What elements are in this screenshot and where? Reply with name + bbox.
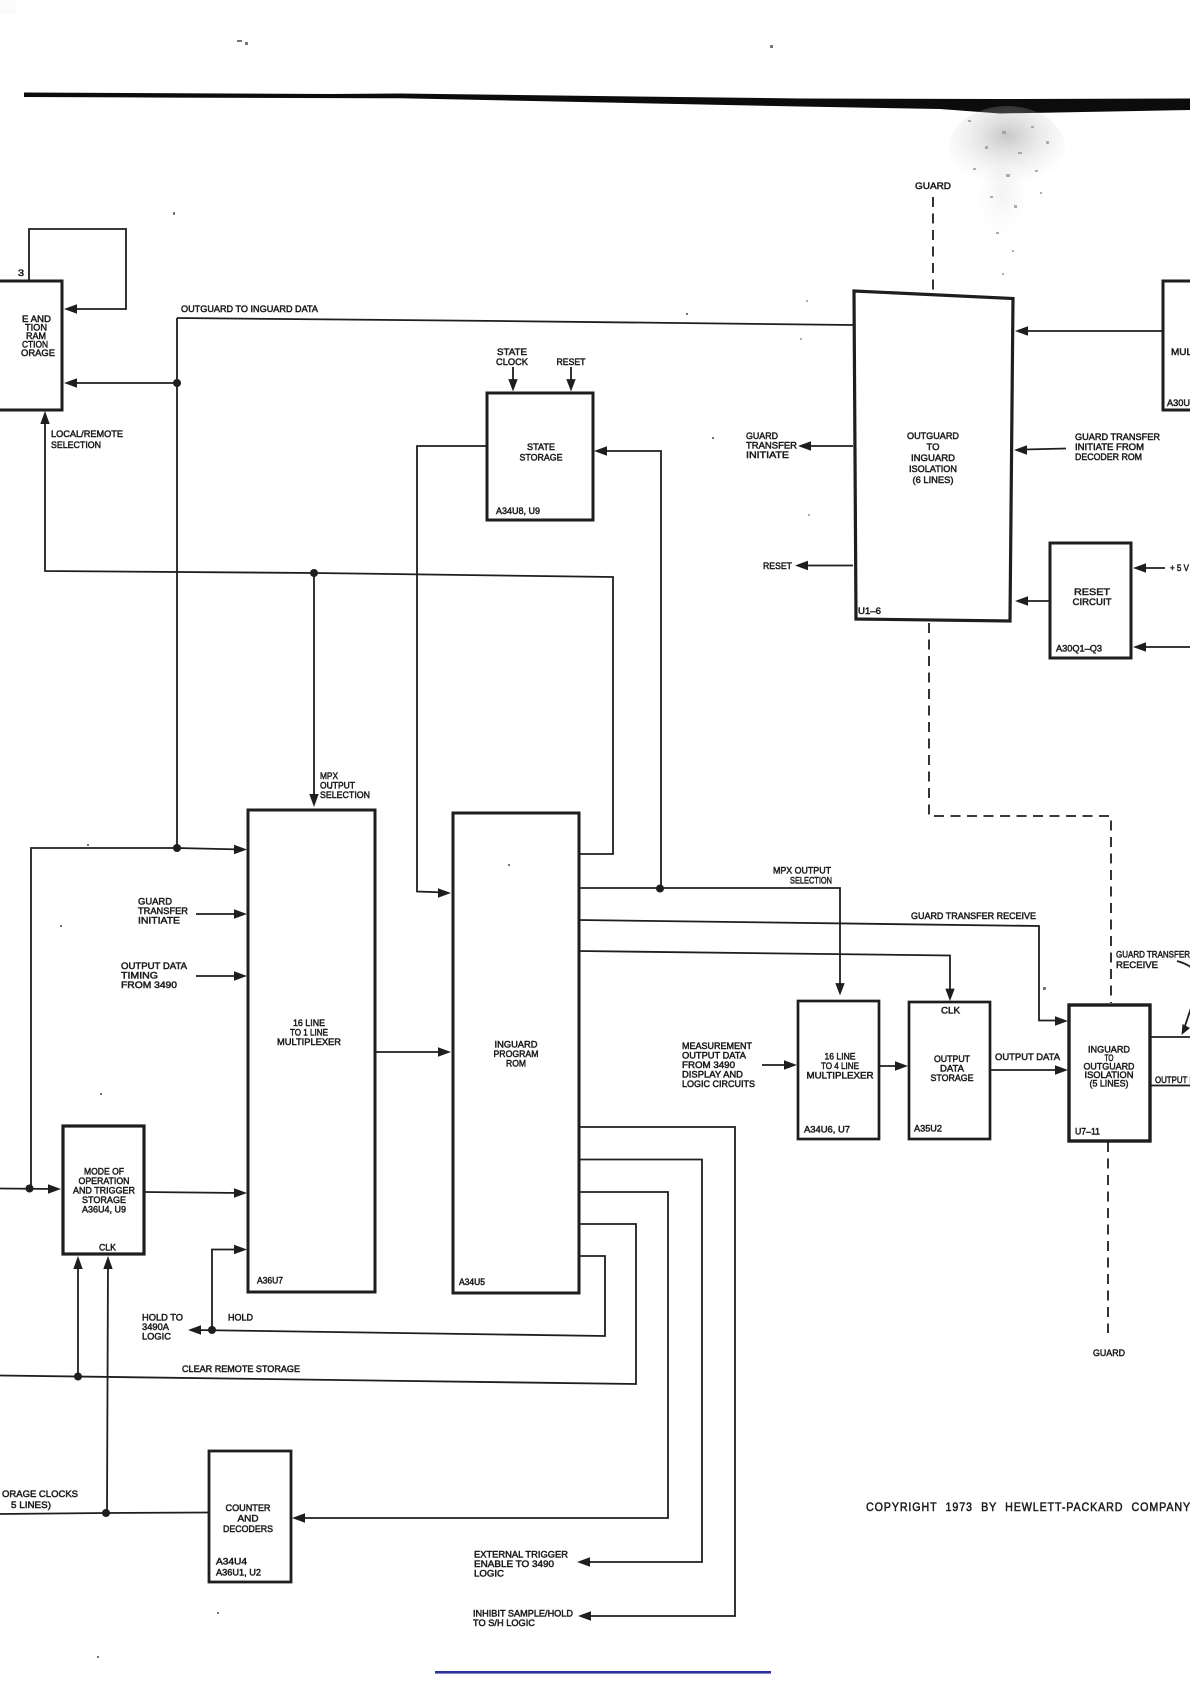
node: LOCAL/REMOTE SELECTION label xyxy=(51,428,123,450)
svg-text:LOGIC: LOGIC xyxy=(142,1331,171,1342)
wire: mode of operation storage output into 16:1 multiplexer xyxy=(144,1188,247,1197)
block: state storage A34U8, U9 xyxy=(487,393,593,520)
svg-text:(6 LINES): (6 LINES) xyxy=(913,474,954,485)
svg-text:ROM: ROM xyxy=(506,1058,526,1069)
svg-text:LOGIC: LOGIC xyxy=(474,1568,504,1579)
node: EXTERNAL TRIGGER ENABLE TO 3490 LOGIC label xyxy=(474,1549,568,1579)
junction: mode storage input from page-left net xyxy=(26,1185,34,1193)
svg-text:STORAGE: STORAGE xyxy=(520,452,563,463)
block: multiplexer (partial at page right edge) A30U xyxy=(1163,281,1190,410)
node: MPX OUTPUT SELECTION label (left) xyxy=(320,770,370,800)
block: reset circuit A30Q1-Q3 xyxy=(1050,543,1131,658)
wire: reset arrow into state storage top xyxy=(566,367,575,392)
svg-text:MULTIPLEXER: MULTIPLEXER xyxy=(277,1036,341,1047)
wire: isolation output upper line to page right edge xyxy=(1150,1036,1190,1038)
node: GUARD TRANSFER RECEIVE label (right edge) xyxy=(1116,949,1190,971)
junction: output selection net to state storage branch xyxy=(656,885,664,893)
wire: ROM loop 2 to external trigger enable xyxy=(577,1160,702,1567)
wire: annotation arrow from receive label to isolation output line xyxy=(1177,961,1190,1035)
svg-text:3: 3 xyxy=(18,267,24,278)
wire: output data from storage into inguard-outguard isolation xyxy=(990,1065,1068,1074)
svg-text:A36U7: A36U7 xyxy=(257,1275,283,1286)
junction: data line to mode-of-operation branch xyxy=(173,844,181,852)
svg-text:A34U8, U9: A34U8, U9 xyxy=(496,505,540,516)
svg-text:AND: AND xyxy=(238,1513,259,1524)
svg-text:GUARD: GUARD xyxy=(915,180,951,191)
svg-text:CLOCK: CLOCK xyxy=(496,356,529,367)
svg-text:LOCAL/REMOTE: LOCAL/REMOTE xyxy=(51,428,123,439)
wire: ROM loop 5 hold net xyxy=(194,1256,605,1336)
wire: state storage left output looping down into inguard program ROM xyxy=(417,446,487,898)
wire: storage clocks line from page left edge into counter and decoders xyxy=(0,1513,209,1515)
svg-text:CLEAR REMOTE STORAGE: CLEAR REMOTE STORAGE xyxy=(182,1363,300,1374)
svg-text:COUNTER: COUNTER xyxy=(226,1502,271,1513)
wire: feedback loop from storage box top to its right side input xyxy=(29,229,126,314)
junction: hold net to multiplexer riser xyxy=(208,1326,216,1334)
wire: 16:4 multiplexer output into output data storage xyxy=(879,1061,908,1070)
svg-text:DECODER ROM: DECODER ROM xyxy=(1075,451,1142,462)
block: output data storage A35U2 xyxy=(909,1002,990,1139)
block: counter and decoders A34U4 A36U1, U2 xyxy=(209,1451,291,1582)
svg-text:A34U5: A34U5 xyxy=(459,1276,485,1287)
svg-text:A30Q1–Q3: A30Q1–Q3 xyxy=(1056,643,1102,654)
svg-text:TO: TO xyxy=(927,441,940,452)
wire: measurement output data arrow into 16:4 multiplexer xyxy=(762,1060,797,1069)
svg-text:RESET: RESET xyxy=(763,560,792,571)
svg-text:TO S/H LOGIC: TO S/H LOGIC xyxy=(473,1617,535,1628)
block: remote program selection storage (partial at page edge) xyxy=(0,267,62,410)
svg-text:ISOLATION: ISOLATION xyxy=(909,463,957,474)
svg-text:OUTGUARD TO INGUARD DATA: OUTGUARD TO INGUARD DATA xyxy=(181,303,319,314)
svg-text:A34U4: A34U4 xyxy=(216,1556,247,1567)
svg-text:U7–11: U7–11 xyxy=(1075,1126,1100,1137)
svg-text:OUTPUT DATA: OUTPUT DATA xyxy=(995,1051,1061,1062)
wire: mpx output selection arrow into 16:1 multiplexer top xyxy=(309,573,318,807)
wire: clock line from ROM into output data storage top xyxy=(579,951,955,1001)
wire: branch arrow into storage box right side xyxy=(64,378,177,387)
svg-text:STORAGE: STORAGE xyxy=(931,1072,974,1083)
svg-text:A35U2: A35U2 xyxy=(914,1123,942,1134)
wire: branch left and down to mode of operation storage input xyxy=(31,848,177,1189)
wire: isolation output lower line to page right edge xyxy=(1150,1085,1190,1087)
wire: guard transfer initiate arrow out of outguard isolation left xyxy=(798,441,853,450)
svg-text:HOLD: HOLD xyxy=(228,1312,253,1323)
block: inguard program ROM A34U5 xyxy=(453,813,579,1293)
wire: guard transfer receive from ROM into inguard-outguard isolation xyxy=(579,920,1068,1026)
svg-text:ORAGE CLOCKS: ORAGE CLOCKS xyxy=(2,1488,78,1499)
block: inguard to outguard isolation U7-11 xyxy=(1069,1005,1150,1141)
wire: ROM loop 1 to inhibit sample/hold xyxy=(578,1127,735,1621)
svg-text:OUTGUARD: OUTGUARD xyxy=(907,430,959,441)
node: HOLD TO 3490A LOGIC label xyxy=(142,1312,183,1342)
svg-text:ORAGE: ORAGE xyxy=(21,347,55,358)
svg-text:CLK: CLK xyxy=(941,1005,961,1016)
svg-text:CIRCUIT: CIRCUIT xyxy=(1073,596,1112,607)
node: STATE CLOCK input label xyxy=(496,346,529,367)
junction: clear remote storage to mode storage riser xyxy=(74,1373,82,1381)
wire: output data timing arrow into 16:1 multiplexer xyxy=(196,971,247,980)
svg-text:MUL: MUL xyxy=(1171,346,1190,357)
node: GUARD TRANSFER INITIATE input label (multiplexer) xyxy=(138,896,188,926)
svg-text:A36U1, U2: A36U1, U2 xyxy=(216,1567,261,1578)
svg-text:INITIATE: INITIATE xyxy=(138,915,180,926)
svg-text:GUARD TRANSFER RECEIVE: GUARD TRANSFER RECEIVE xyxy=(911,910,1036,921)
svg-text:INITIATE: INITIATE xyxy=(746,449,789,460)
wire: guard dashed line below inguard-outguard isolation xyxy=(1107,1142,1109,1333)
svg-text:(5 LINES): (5 LINES) xyxy=(1090,1078,1129,1089)
svg-text:5 LINES): 5 LINES) xyxy=(11,1499,51,1510)
svg-text:RECEIVE: RECEIVE xyxy=(1116,959,1158,970)
wire: guard transfer initiate arrow into 16:1 multiplexer xyxy=(196,909,247,918)
svg-text:OUTPUT D: OUTPUT D xyxy=(1155,1074,1190,1085)
svg-text:CLK: CLK xyxy=(99,1242,117,1253)
wire: riser from clear remote storage into mode storage bottom xyxy=(73,1256,82,1377)
wire: input from page left edge into mode of operation storage xyxy=(0,1184,61,1193)
junction: data branch to storage box xyxy=(173,379,181,387)
svg-text:SELECTION: SELECTION xyxy=(790,875,832,886)
svg-text:INGUARD: INGUARD xyxy=(911,452,955,463)
wire: state clock arrow into state storage top xyxy=(508,367,517,392)
wire: +5 V arrow into reset circuit right side xyxy=(1133,563,1165,572)
node: OUTPUT DATA TIMING FROM 3490 label xyxy=(121,960,188,990)
wire: local/remote selection net from ROM loop up into storage box bottom xyxy=(40,411,613,854)
wire: state storage right side input from ROM output selection net xyxy=(594,446,661,889)
wire: guard transfer initiate from decoder rom arrow into outguard isolation right xyxy=(1014,445,1066,454)
svg-text:RESET: RESET xyxy=(557,356,586,367)
svg-text:A30U: A30U xyxy=(1167,397,1190,408)
svg-text:A34U6, U7: A34U6, U7 xyxy=(804,1124,850,1135)
wire: ROM loop 4 clear remote storage net xyxy=(0,1224,636,1384)
block: mode of operation and trigger storage A36U4, U9 xyxy=(63,1126,144,1254)
wire: riser from storage clocks into mode storage bottom xyxy=(103,1256,112,1513)
node: STORAGE CLOCKS (5 LINES) label (partial at page edge) xyxy=(2,1488,78,1510)
block: outguard to inguard isolation U1-6 xyxy=(854,291,1013,621)
svg-text:GUARD TRANSFER: GUARD TRANSFER xyxy=(1116,949,1190,960)
svg-text:COPYRIGHT 1973 BY HEWLETT-PACK: COPYRIGHT 1973 BY HEWLETT-PACKARD COMPAN… xyxy=(866,1500,1190,1514)
svg-text:MULTIPLEXER: MULTIPLEXER xyxy=(807,1070,874,1081)
node: INHIBIT SAMPLE/HOLD TO S/H LOGIC label xyxy=(473,1608,573,1629)
wire: ROM output selection net to 16:4 multiplexer and state storage xyxy=(579,888,845,996)
svg-text:LOGIC CIRCUITS: LOGIC CIRCUITS xyxy=(682,1078,755,1089)
block: 16 line to 4 line multiplexer A34U6, U7 xyxy=(798,1001,879,1139)
svg-text:SELECTION: SELECTION xyxy=(51,439,101,450)
svg-text:SELECTION: SELECTION xyxy=(320,789,370,800)
wire: guard dashed line from outguard isolation bottom to inguard isolation top xyxy=(929,623,1111,1003)
wire: hold arrow toward 3490A logic xyxy=(188,1325,201,1334)
svg-text:A36U4, U9: A36U4, U9 xyxy=(82,1204,126,1215)
svg-text:FROM 3490: FROM 3490 xyxy=(121,979,177,990)
wire: data line into 16 line to 1 line multiplexer input xyxy=(177,845,247,854)
junction: local/remote net to mpx output selection branch xyxy=(310,569,318,577)
wire: ROM loop 3 into counter and decoders xyxy=(292,1192,668,1523)
wire: reset arrow out of outguard isolation left xyxy=(795,561,853,570)
node: MPX OUTPUT SELECTION label (right) xyxy=(773,865,832,886)
svg-text:GUARD: GUARD xyxy=(1093,1347,1125,1358)
svg-text:STATE: STATE xyxy=(527,441,555,452)
wire: outguard to inguard data line to outguard isolation block xyxy=(177,318,853,325)
wire: input from page right edge into reset circuit xyxy=(1133,642,1190,651)
wire: guard dashed line from label to outguard isolation top xyxy=(932,197,934,290)
node: GUARD TRANSFER INITIATE FROM DECODER ROM label xyxy=(1075,431,1160,462)
wire: from right multiplexer into outguard isolation right side xyxy=(1015,326,1163,335)
svg-text:U1–6: U1–6 xyxy=(858,605,881,616)
wire: reset circuit output into outguard isolation right side xyxy=(1015,596,1050,605)
junction: storage clocks to mode storage riser xyxy=(102,1509,110,1517)
node: MEASUREMENT OUTPUT DATA FROM 3490 DISPLAY AND LOGIC CIRCUITS label xyxy=(682,1040,755,1089)
node: GUARD TRANSFER INITIATE output label xyxy=(746,430,797,460)
wire: riser from hold net into 16:1 multiplexer xyxy=(212,1245,247,1330)
block: 16 line to 1 line multiplexer A36U7 xyxy=(248,810,375,1292)
wire: 16:1 multiplexer output into inguard program ROM xyxy=(375,1047,451,1056)
svg-text:DECODERS: DECODERS xyxy=(223,1523,273,1534)
svg-text:+ 5 V: + 5 V xyxy=(1170,562,1190,573)
wire: outguard to inguard data vertical branch down to multiplexer input xyxy=(176,318,178,848)
